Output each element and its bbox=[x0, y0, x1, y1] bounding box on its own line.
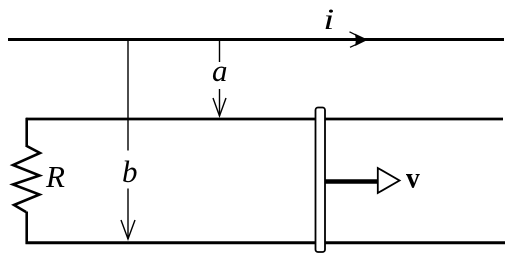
label a (distance) bbox=[212, 53, 228, 88]
dimension line a: upper segment from top wire bbox=[219, 40, 221, 62]
dimension arrow a: shaft and open arrowhead to top rail bbox=[213, 89, 226, 116]
wire: left vertical wire (resistor to bottom rail) bbox=[25, 212, 28, 245]
label b (distance) bbox=[122, 154, 138, 189]
label R (resistor value) bbox=[45, 159, 65, 194]
sliding rod (conducting bar across rails) bbox=[316, 108, 326, 253]
label v (velocity vector, bold) bbox=[406, 161, 420, 194]
wire: left vertical wire (top stub to resistor) bbox=[25, 118, 28, 147]
dimension arrow b: shaft and open arrowhead to bottom rail bbox=[121, 189, 135, 240]
wire: bottom rail of loop bbox=[26, 241, 506, 244]
svg-text:v: v bbox=[406, 161, 420, 194]
arrowhead: current direction arrow on top wire bbox=[350, 32, 367, 48]
svg-text:b: b bbox=[122, 154, 138, 189]
velocity arrow v: hollow triangular head bbox=[378, 168, 400, 193]
svg-text:i: i bbox=[323, 2, 334, 36]
velocity arrow v: thick shaft bbox=[325, 179, 379, 184]
wire: long straight wire carrying current i (top) bbox=[8, 38, 504, 41]
svg-text:R: R bbox=[45, 159, 65, 194]
dimension line b: upper segment from top wire past top rail bbox=[127, 40, 129, 151]
resistor R (zigzag) bbox=[13, 146, 40, 212]
svg-text:a: a bbox=[212, 53, 228, 88]
label i (current) bbox=[323, 2, 334, 36]
wire: top rail of loop (middle horizontal) bbox=[26, 118, 503, 121]
